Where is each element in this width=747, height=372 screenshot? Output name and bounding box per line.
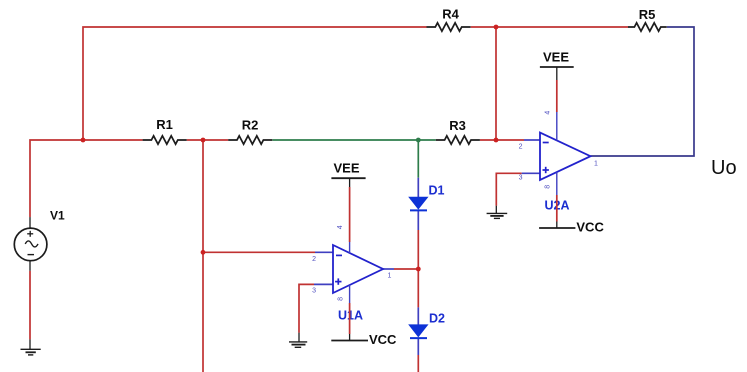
wire D2 bottom to bottom edge (417, 339, 419, 356)
source V1 (14, 217, 47, 271)
op-amp U2A (540, 112, 591, 195)
svg-text:R5: R5 (639, 7, 656, 22)
wire U1A pin3 to ground (299, 284, 314, 332)
svg-text:Uo: Uo (711, 157, 737, 179)
wire D1 bottom to output node (417, 210, 419, 230)
wire top between R4 and R5 (471, 26, 628, 28)
wire blue stub U2A pin2 (524, 139, 540, 141)
resistor R1 (143, 136, 187, 144)
svg-text:2: 2 (312, 256, 316, 263)
node junction dot 418,269 (416, 267, 421, 272)
svg-text:4: 4 (544, 111, 551, 115)
svg-text:U1A: U1A (338, 308, 363, 322)
svg-text:VEE: VEE (334, 161, 360, 176)
wire VEE to U2A pin4 (556, 67, 558, 80)
wire blue from R5 down to U2A output (591, 27, 695, 156)
svg-text:8: 8 (337, 297, 344, 301)
svg-text:VEE: VEE (543, 50, 569, 65)
resistor R3 (436, 136, 480, 144)
diode D2 (409, 325, 428, 338)
wire vertical from R4/R5 node down to R3 node (495, 27, 497, 140)
wire U1A output to D-node (383, 268, 394, 270)
svg-text:D1: D1 (429, 183, 445, 197)
op-amp U1A (333, 242, 383, 303)
svg-text:4: 4 (337, 225, 344, 229)
wire main input row red V1 to R1 (30, 140, 143, 217)
wire VEE to U1A pin4 (349, 178, 351, 187)
svg-text:R2: R2 (242, 118, 259, 133)
svg-text:1: 1 (388, 273, 392, 280)
wire U1A pin8 to VCC (349, 303, 351, 334)
node junction dot 83,140 (81, 138, 86, 143)
wire R1 to R2 (187, 139, 229, 141)
svg-text:VCC: VCC (576, 220, 604, 235)
svg-text:1: 1 (594, 160, 598, 167)
svg-text:D2: D2 (429, 312, 445, 326)
ground (U2A) (487, 213, 508, 218)
U1A VCC rail (331, 340, 368, 342)
svg-text:R3: R3 (449, 118, 466, 133)
resistor R2 (228, 136, 272, 144)
svg-text:R1: R1 (156, 117, 173, 132)
node junction dot 203,140 (201, 138, 206, 143)
wire U1A pin2 horizontal (203, 251, 315, 253)
svg-text:3: 3 (519, 175, 523, 182)
svg-text:8: 8 (545, 185, 552, 189)
node junction dot green 418,140 (416, 138, 421, 143)
wire green node down to D1 (417, 140, 419, 178)
U2A VCC rail (539, 227, 575, 229)
wire green R2 to R3 (272, 139, 435, 141)
svg-text:R4: R4 (442, 7, 459, 22)
node junction dot 496,27 (494, 25, 499, 30)
svg-text:2: 2 (519, 143, 523, 150)
node junction dot 203,252 (201, 250, 206, 255)
wire R3 to U2A pin2 (480, 139, 524, 141)
wire V1 bottom to ground (29, 271, 31, 340)
wire top horizontal left (node after R4 feedback) (83, 27, 427, 140)
svg-text:VCC: VCC (369, 332, 397, 347)
node junction dot 496,140 (494, 138, 499, 143)
wire vertical x=203 down to bottom edge (202, 140, 204, 372)
resistor R4 (427, 23, 471, 31)
diode D1 (409, 197, 428, 210)
resistor R5 (628, 23, 667, 31)
svg-text:V1: V1 (50, 209, 65, 223)
wire output node down to D2 (417, 269, 419, 307)
ground (V1) (21, 349, 41, 355)
ground (U1A) (289, 342, 307, 347)
wire U2A pin3 to ground (496, 173, 521, 205)
svg-text:3: 3 (312, 288, 316, 295)
wire U2A pin8 to VCC (556, 195, 558, 222)
